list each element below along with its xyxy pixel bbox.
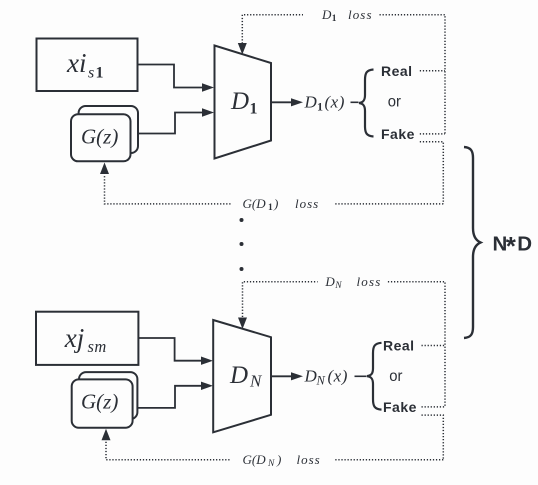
svg-text:G(z): G(z) [81,390,118,414]
svg-text:Fake: Fake [381,126,415,142]
svg-text:N: N [249,372,263,391]
svg-text:D: D [304,93,318,112]
svg-text:Real: Real [383,337,415,353]
svg-text:N: N [334,281,342,291]
svg-text:): ) [273,196,278,211]
svg-text:s: s [88,65,94,82]
svg-text:G(z): G(z) [81,125,118,149]
svg-text:(x): (x) [328,367,348,386]
svg-text:G(D: G(D [243,196,267,211]
svg-text:D: D [304,367,318,386]
svg-text:Fake: Fake [383,399,417,415]
svg-text:loss: loss [357,274,382,289]
svg-text:D: D [229,362,248,389]
svg-text:Real: Real [381,63,413,79]
svg-text:1: 1 [317,100,323,114]
svg-text:xj: xj [64,323,85,353]
svg-text:D: D [321,7,332,22]
svg-text:D: D [324,274,335,289]
svg-text:D: D [517,233,532,256]
svg-text:xi: xi [66,48,87,78]
svg-text:1: 1 [250,101,258,118]
svg-text:(x): (x) [325,93,345,112]
svg-text:loss: loss [295,196,319,211]
svg-text:sm: sm [88,337,107,356]
svg-text:D: D [230,88,249,115]
svg-text:N: N [316,374,326,388]
svg-text:loss: loss [348,7,373,22]
svg-text:or: or [388,93,402,110]
svg-text:*: * [506,231,517,261]
svg-text:N: N [267,459,275,469]
svg-text:1: 1 [268,203,273,213]
svg-text:loss: loss [297,452,321,467]
svg-text:1: 1 [332,14,337,24]
svg-text:or: or [389,368,403,385]
svg-text:): ) [276,452,281,467]
svg-text:1: 1 [96,65,104,82]
svg-text:G(D: G(D [243,452,267,467]
